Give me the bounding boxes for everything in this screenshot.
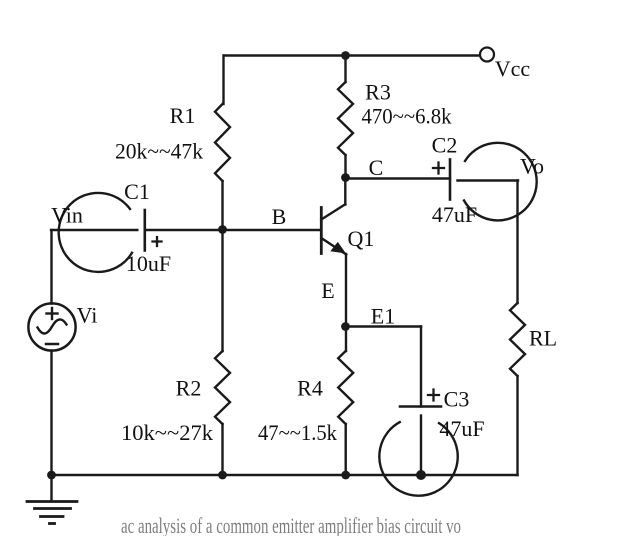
svg-text:R3: R3 [365,79,391,104]
svg-text:470~~6.8k: 470~~6.8k [362,104,452,129]
svg-text:E1: E1 [371,304,395,329]
svg-text:Vcc: Vcc [495,56,531,81]
svg-text:47uF: 47uF [432,202,477,227]
svg-text:ac analysis of a common emitte: ac analysis of a common emitter amplifie… [121,513,461,536]
svg-text:Vin: Vin [51,203,83,228]
svg-text:47uF: 47uF [439,416,484,441]
svg-text:R1: R1 [170,103,196,128]
svg-text:B: B [272,204,287,229]
svg-text:E: E [321,278,334,303]
svg-text:R4: R4 [297,376,323,401]
svg-text:RL: RL [529,326,557,351]
svg-text:10k~~27k: 10k~~27k [121,420,213,445]
svg-text:C2: C2 [432,133,458,158]
svg-text:C3: C3 [444,387,470,412]
svg-text:C1: C1 [124,179,150,204]
svg-text:47~~1.5k: 47~~1.5k [258,420,337,445]
svg-text:20k~~47k: 20k~~47k [115,139,203,164]
svg-text:R2: R2 [176,375,202,400]
svg-text:C: C [369,155,384,180]
svg-text:Q1: Q1 [348,226,375,251]
svg-text:Vo: Vo [520,154,544,179]
svg-text:10uF: 10uF [126,251,171,276]
svg-text:Vi: Vi [77,303,98,328]
